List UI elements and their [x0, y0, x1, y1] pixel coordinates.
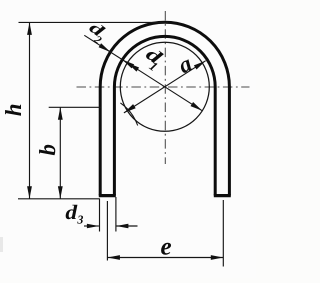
horizontal centerline	[77, 86, 250, 88]
e arrow left	[107, 255, 120, 260]
faint teal smudge left edge	[0, 237, 3, 252]
d2/d1 diagonal dimension line	[84, 35, 202, 111]
h arrow top	[27, 22, 32, 35]
h arrow bottom	[27, 186, 32, 199]
bottom extension line	[18, 198, 100, 200]
U-bolt outer profile (arc + legs)	[100, 22, 229, 195]
b upper extension line	[49, 106, 101, 108]
svg-text:e: e	[160, 233, 171, 260]
d3 left arrow line	[84, 225, 99, 227]
dimension line b	[59, 107, 61, 199]
svg-text:d: d	[65, 202, 78, 224]
dimension line h	[29, 22, 31, 198]
dimension line e	[107, 257, 223, 259]
svg-text:h: h	[1, 104, 26, 117]
d3 right extension line	[115, 197, 117, 232]
d1 arrow upper-left	[127, 63, 139, 72]
e left extension line	[106, 201, 108, 261]
d3 left extension line	[99, 199, 101, 232]
d3 right arrow line	[116, 225, 137, 227]
U-bolt inner profile (arc + legs)	[114, 36, 215, 195]
e arrow right	[211, 255, 224, 260]
vertical centerline	[164, 11, 166, 164]
dimension line a	[124, 61, 206, 113]
top extension line	[19, 21, 169, 23]
d1 arrow lower-right	[191, 102, 203, 111]
right leg end cap	[214, 194, 231, 197]
a arrow lower-left	[124, 104, 136, 113]
d2 arrow on outer arc	[99, 43, 111, 52]
U-bolt technical drawing	[0, 0, 256, 278]
a arrow upper-right	[194, 61, 206, 70]
svg-text:b: b	[35, 144, 60, 156]
b arrow bottom	[58, 186, 63, 199]
svg-text:3: 3	[76, 212, 83, 226]
left leg end cap	[99, 194, 116, 197]
thin extension arc of inner bore (lower-left)	[120, 103, 137, 126]
pipe circle (clamped tube)	[120, 42, 209, 131]
d2 arrow on inner arc	[122, 60, 134, 69]
b arrow top	[58, 107, 63, 120]
e right extension line	[222, 200, 224, 267]
